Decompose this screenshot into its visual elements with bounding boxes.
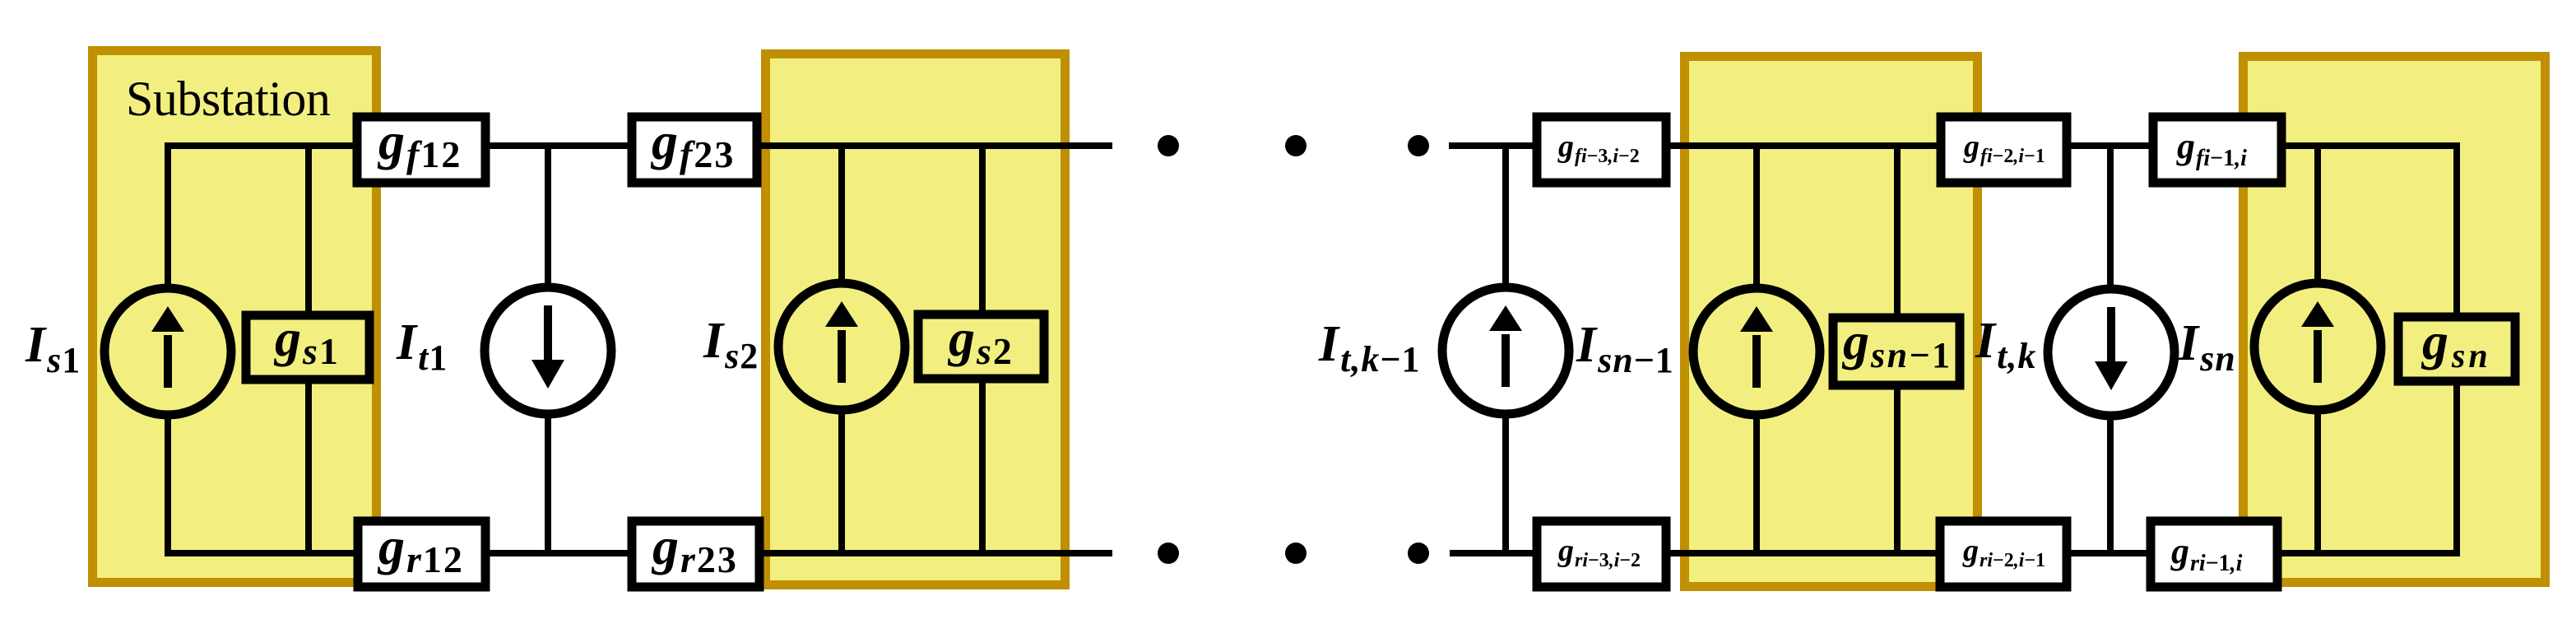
ellipsis dot top 3 bbox=[1408, 135, 1429, 156]
ellipsis dot bottom 1 bbox=[1158, 543, 1179, 564]
current source Itk-1 bbox=[1442, 287, 1569, 414]
conductance box gs2 bbox=[918, 314, 1044, 379]
substation box n-1 bbox=[1685, 57, 1978, 587]
current source Isn bbox=[2254, 283, 2381, 410]
substation box n bbox=[2244, 57, 2546, 583]
ellipsis dot top 2 bbox=[1285, 135, 1307, 156]
wire bottom rail left segment bbox=[168, 550, 1112, 556]
wire branch Isn bbox=[2314, 142, 2321, 556]
ellipsis dot top 1 bbox=[1158, 135, 1179, 156]
svg-text:Is1: Is1 bbox=[25, 317, 81, 380]
wire branch Is2 bbox=[838, 142, 845, 556]
substation box 1 bbox=[93, 51, 377, 583]
conductance box gf12 bbox=[357, 117, 485, 183]
conductance box gr12 bbox=[358, 521, 485, 587]
current source Is1 bbox=[104, 288, 231, 415]
conductance box gri-3,i-2 bbox=[1537, 521, 1666, 587]
conductance box gsn bbox=[2398, 317, 2515, 381]
conductance box gr23 bbox=[632, 521, 759, 587]
wire branch gsn-1 bbox=[1894, 142, 1901, 556]
conductance box gfi-1,i bbox=[2153, 117, 2281, 183]
svg-text:Is2: Is2 bbox=[703, 313, 759, 376]
svg-text:Substation: Substation bbox=[126, 72, 331, 126]
conductance box gf23 bbox=[632, 117, 757, 183]
svg-text:It1: It1 bbox=[396, 314, 448, 378]
wire branch gsn bbox=[2453, 142, 2460, 556]
conductance box gri-1,i bbox=[2151, 521, 2277, 587]
conductance box gfi-3,i-2 bbox=[1537, 117, 1666, 183]
svg-text:Isn−1: Isn−1 bbox=[1576, 317, 1674, 380]
ellipsis dot bottom 2 bbox=[1285, 543, 1307, 564]
current source Isn-1 bbox=[1693, 288, 1820, 415]
current source Is2 bbox=[778, 283, 905, 410]
svg-text:It,k−1: It,k−1 bbox=[1318, 316, 1420, 380]
conductance box gfi-2,i-1 bbox=[1941, 117, 2067, 183]
svg-text:It,k: It,k bbox=[1975, 313, 2036, 376]
wire top rail left segment bbox=[168, 142, 1112, 149]
wire branch Itk bbox=[2107, 142, 2114, 556]
current source Itk bbox=[2048, 289, 2175, 416]
wire branch gs1 bbox=[305, 142, 312, 556]
wire branch Isn-1 bbox=[1753, 142, 1760, 556]
svg-text:Isn: Isn bbox=[2178, 315, 2236, 379]
wire branch Itk-1 bbox=[1502, 142, 1509, 556]
wire bottom rail right segment bbox=[1450, 550, 2457, 556]
wire branch Is1 bbox=[165, 142, 171, 556]
conductance box gsn-1 bbox=[1833, 318, 1960, 385]
conductance box gri-2,i-1 bbox=[1940, 521, 2067, 587]
wire top rail right segment bbox=[1449, 142, 2457, 149]
substation box 2 bbox=[766, 54, 1065, 585]
wire branch It1 bbox=[545, 142, 551, 556]
conductance box gs1 bbox=[246, 315, 369, 380]
wire branch gs2 bbox=[979, 142, 986, 556]
ellipsis dot bottom 3 bbox=[1408, 543, 1429, 564]
current source It1 bbox=[485, 287, 611, 414]
